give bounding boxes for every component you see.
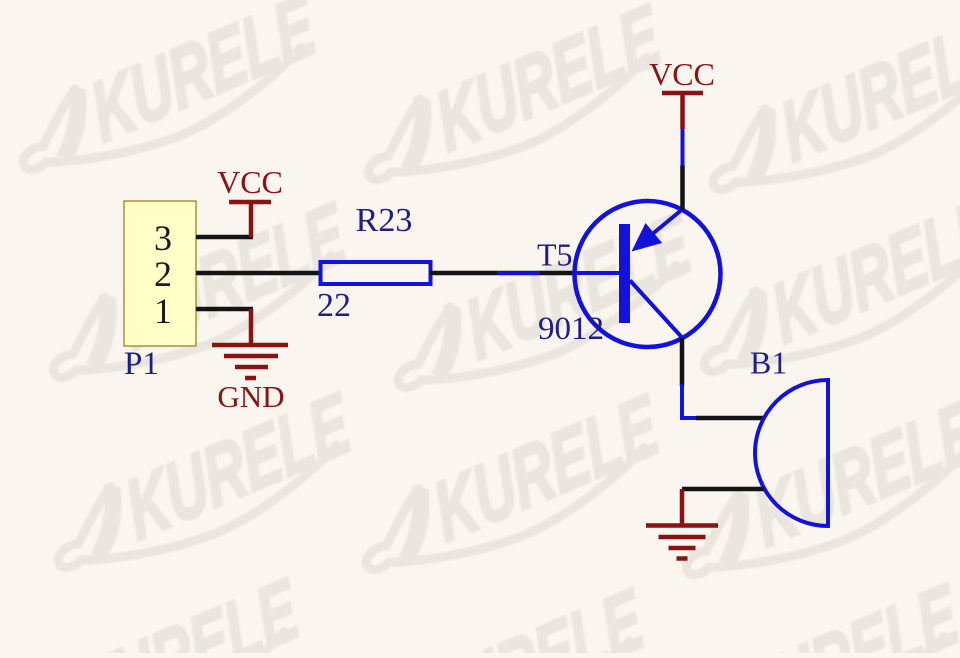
wire buzzer bottom to ground bbox=[682, 487, 764, 492]
buzzer B1 bbox=[755, 378, 828, 528]
svg-text:B1: B1 bbox=[750, 345, 787, 381]
svg-text:R23: R23 bbox=[356, 202, 413, 239]
connector P1 body bbox=[124, 201, 196, 346]
ground symbol right bbox=[646, 489, 718, 559]
svg-text:1: 1 bbox=[154, 291, 172, 331]
wire blue segment bbox=[497, 271, 540, 275]
pin wire transistor collector down bbox=[680, 338, 685, 386]
wire resistor to transistor base bbox=[430, 271, 575, 276]
pin wire buzzer top bbox=[696, 416, 764, 421]
wire pin 1 bbox=[196, 307, 253, 312]
svg-text:9012: 9012 bbox=[538, 311, 604, 347]
power symbol VCC left bbox=[229, 202, 271, 237]
resistor R23 bbox=[321, 262, 431, 284]
wire blue to VCC bbox=[681, 127, 685, 166]
transistor T5 9012 bbox=[572, 201, 721, 347]
wire pin 3 bbox=[196, 235, 253, 240]
power symbol VCC top bbox=[662, 93, 703, 129]
svg-text:GND: GND bbox=[217, 379, 284, 414]
svg-text:22: 22 bbox=[317, 287, 351, 324]
svg-text:3: 3 bbox=[154, 218, 172, 258]
svg-text:T5: T5 bbox=[537, 237, 573, 273]
svg-text:2: 2 bbox=[154, 254, 172, 294]
svg-text:P1: P1 bbox=[124, 346, 159, 382]
ground symbol GND left bbox=[212, 309, 288, 378]
svg-text:VCC: VCC bbox=[649, 56, 715, 92]
wire collector to buzzer bbox=[682, 384, 698, 418]
svg-text:VCC: VCC bbox=[217, 164, 283, 200]
wire pin 2 to resistor bbox=[196, 271, 320, 276]
pin wire transistor emitter up bbox=[680, 165, 685, 210]
